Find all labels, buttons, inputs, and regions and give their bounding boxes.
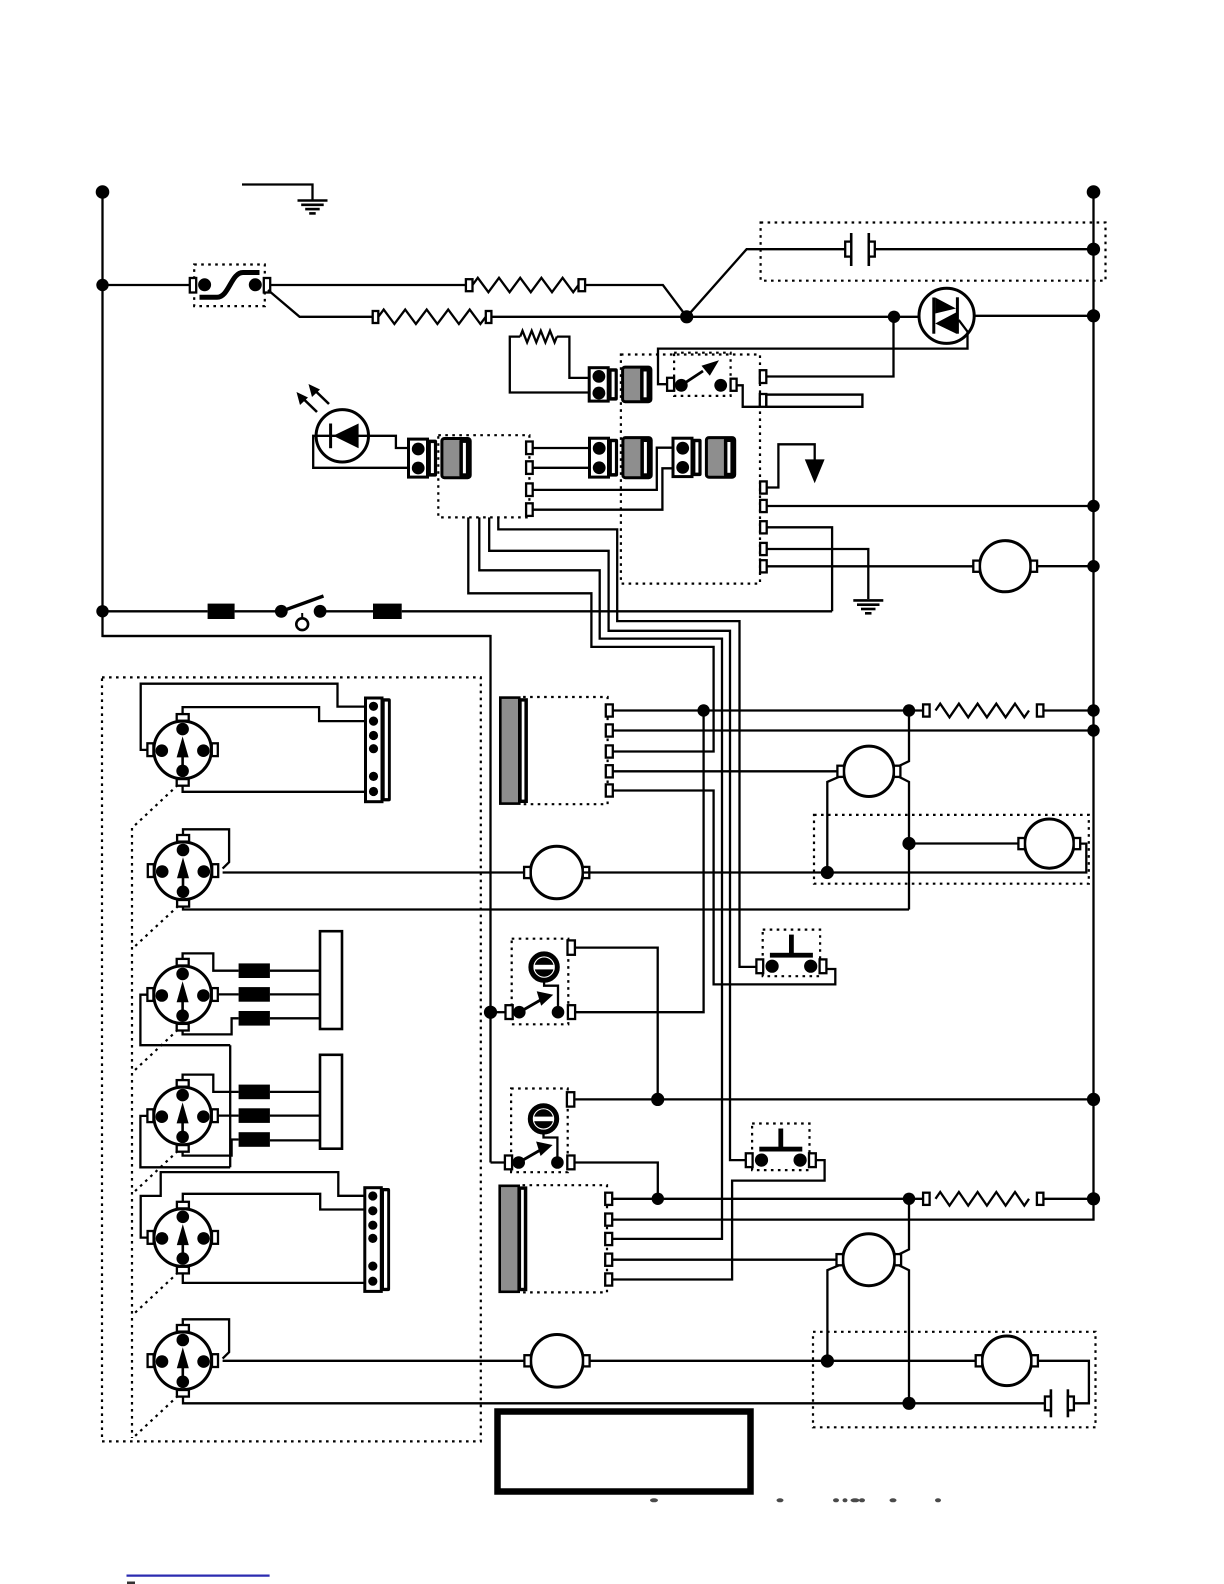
node fan box left junction [821, 866, 834, 879]
resistor R1 bake element [473, 278, 579, 292]
wire pin1 to triac gate branch [766, 317, 893, 377]
rotary infinite switch S11 [154, 1332, 212, 1390]
wire M6 left drop [827, 1265, 839, 1361]
capacitor C2 left plate [1050, 1389, 1053, 1417]
wire S11 top pigtail [183, 1319, 229, 1358]
node triac gate-branch tap [888, 311, 900, 323]
node J1-1 fan branch [903, 704, 915, 716]
wire R4 to right rail [1043, 709, 1093, 711]
linkage dotted diagonal S6 [132, 785, 178, 828]
surface element frame bar 2 [320, 1055, 342, 1149]
wire S6 top to J3-2 [183, 707, 366, 721]
node L1 light-circuit tap [96, 605, 108, 617]
element E1 [239, 963, 270, 978]
node fan box mid junction [902, 837, 915, 850]
terminal R5 right [1037, 1193, 1044, 1205]
linkage dotted vertical [131, 828, 133, 1438]
rotary infinite switch S8 [154, 966, 212, 1024]
rotary infinite switch S10 [154, 1209, 212, 1267]
capacitor C1 dotted box [761, 223, 1106, 281]
wire M4 loop [583, 844, 1086, 873]
wire S8 left junction [140, 995, 230, 1045]
wire B to right rail (L2) [767, 505, 1094, 507]
node lower box left junction [821, 1354, 834, 1367]
wire J2-4 row to motor M6 [612, 1259, 837, 1261]
resistor R3 sensor loop [520, 331, 557, 343]
terminal R4 right [1037, 704, 1044, 716]
wire S10 left to J4-1 [141, 1172, 365, 1238]
wire node A to triac TR1 [687, 316, 919, 318]
terminal breaker left [190, 278, 196, 293]
contact S3 right [314, 605, 327, 618]
footer blue rule [127, 1574, 270, 1576]
terminal clock r3 [526, 483, 533, 496]
connector pair P3 [673, 438, 692, 476]
resistor R4 [936, 704, 1030, 718]
wire S7 right to motor M2 [223, 871, 526, 873]
wire LED cathode to P1 [369, 436, 409, 448]
terminal R1 right [579, 279, 586, 291]
wire C1 to right rail [875, 248, 1094, 250]
LED emission arrows [303, 399, 317, 413]
relay S2 actuating arrow [681, 371, 703, 385]
motor M2 oven fan [530, 846, 583, 899]
wire node A to C1 [687, 249, 846, 317]
oven lamp ballast resistor right [373, 604, 402, 619]
surface element frame bar 1 [320, 931, 342, 1029]
wire R3 loop upper to P0 [557, 337, 589, 378]
wire J1-4 row to motor M1f [613, 770, 838, 772]
motor M3 convection fan upper [844, 746, 894, 796]
node L2 J1-2 tap [1087, 724, 1099, 736]
wire D to ground [767, 549, 869, 599]
terminal control board E [760, 560, 767, 572]
ribbon connector J1 [523, 697, 608, 804]
wire M3 left drop [827, 777, 839, 873]
footer page-number remnant [127, 1582, 135, 1584]
oven control board dotted box [621, 355, 760, 584]
wire J1-5 to door switch S4 loop [613, 791, 836, 985]
wire S6 left to J3-1 [141, 684, 366, 750]
wire S8 top to element E1 [183, 953, 239, 970]
element E4 [239, 1085, 270, 1100]
wire T1 top to lower oven row [575, 948, 657, 1100]
wire T2 left stub [491, 1161, 506, 1163]
node T1 left junction [484, 1006, 497, 1019]
wire left supply rail L1 [103, 192, 491, 1163]
oven sensor element loop bar [766, 395, 862, 407]
oven lamp indicator [301, 613, 303, 618]
terminal control board pin2 [760, 394, 767, 407]
terminal R2 left [373, 311, 379, 323]
capacitor C2 right plate [1067, 1389, 1070, 1417]
node L1 row1 tap [96, 279, 108, 291]
ground chassis symbol top [242, 185, 313, 201]
wire R5 to right rail [1043, 1198, 1093, 1200]
linkage dotted diagonal S11 [132, 1396, 178, 1439]
wire M3 right drop [899, 777, 909, 910]
node L2 triac row tap [1087, 309, 1100, 322]
wire light row to terminal C riser [402, 610, 832, 612]
node lower box right junction [902, 1397, 915, 1410]
wire R2 to node A [491, 316, 686, 318]
wire S8/S9 left common riser [229, 1045, 231, 1167]
wire S10 top to J4-2 [183, 1194, 365, 1210]
motor M5 lower oven fan [531, 1335, 584, 1388]
wire J2-2 row [612, 1199, 1093, 1220]
wire S7 bottom to fan branch [183, 906, 909, 909]
wire clock b2 to ribbon J2-3 [479, 517, 722, 1239]
wire to light switch [235, 610, 282, 612]
wire S9 top to element E4 [183, 1075, 239, 1092]
wire switch to right element [320, 610, 373, 612]
terminal R4 left [923, 704, 930, 716]
wire light circuit row [103, 610, 208, 612]
rotary infinite switch S9 [154, 1087, 212, 1145]
wire lower thermostat T2 top row [575, 1098, 1093, 1100]
terminal clock r4 [526, 503, 533, 516]
wire S10 bottom to J4-6 [183, 1274, 365, 1283]
terminal control board C [760, 521, 767, 533]
wire clock r1 to P2 [533, 447, 590, 449]
node J2-1 fan tap [903, 1193, 915, 1205]
wire M6 right drop [899, 1265, 909, 1403]
wire clock r3 to P3 upper [533, 448, 674, 490]
resistor R2 broil element [378, 310, 486, 324]
node A junction [680, 310, 693, 323]
wire S9 left junction [140, 1116, 230, 1167]
linkage dotted diagonal S10 [132, 1273, 178, 1316]
wire S9 right to element E5 [218, 1114, 238, 1116]
wire clock r2 to P2 [533, 467, 590, 469]
chassis arrow wire [767, 444, 815, 487]
connector pair P2 [590, 438, 609, 477]
ribbon connector J2 [523, 1185, 608, 1292]
light switch S3 lever [281, 596, 323, 611]
wire S11 bottom row [183, 1397, 1045, 1404]
triac TR1 [919, 288, 974, 343]
wire J2-1 row [612, 1198, 923, 1200]
footer faint text remnants [650, 1498, 658, 1502]
wire clock b4 to door switch S4 [498, 517, 758, 967]
node L2 bottom end [1087, 1192, 1100, 1205]
terminal S2 right [731, 379, 737, 391]
wire S6 bottom to J3-6 [183, 786, 366, 792]
element E5 [239, 1108, 270, 1123]
wire S9 bottom to element E6 [183, 1140, 239, 1156]
wire C to oven light circuit [767, 527, 832, 611]
clock timer board dotted box [438, 435, 529, 517]
wire S8 right to element E2 [218, 993, 238, 995]
surface unit section dotted box [102, 677, 481, 1441]
element E2 [239, 987, 270, 1002]
contact breaker left [198, 278, 211, 291]
chassis down-arrow [805, 459, 825, 483]
wire E4 to frame [270, 1091, 320, 1093]
terminal R5 left [923, 1193, 930, 1205]
node J2-1 thermostat tap [652, 1193, 664, 1205]
wire right supply rail L2 [1092, 192, 1094, 1199]
upper fan assembly dotted box [814, 815, 1089, 884]
linkage dotted diagonal S9 [132, 1151, 178, 1194]
node L2 lower tap [1087, 1093, 1100, 1106]
wire clock b1 to ribbon J1-3 [468, 517, 713, 751]
connector J4 [365, 1188, 382, 1292]
capacitor C1 left plate [850, 233, 853, 266]
linkage dotted diagonal S8 [132, 1030, 178, 1073]
wire S5 right loop to J2-5 [612, 1160, 824, 1279]
node L2 terminal-B tap [1087, 500, 1099, 512]
connector pair P1 (LED) [409, 439, 428, 477]
capacitor C1 right plate [867, 233, 870, 266]
wire J1-2 row to right rail [613, 729, 1094, 731]
node L2 top [1087, 185, 1101, 199]
wire S11 right to motor M5 [223, 1360, 526, 1362]
terminal control board A [760, 481, 767, 493]
wire M1 to right rail [1037, 565, 1093, 567]
wire E3 to frame [270, 1017, 320, 1019]
lower fan assembly dotted box [813, 1332, 1096, 1428]
motor M7 lower convection [982, 1336, 1032, 1386]
terminal R2 right [486, 311, 492, 323]
resistor R5 [936, 1192, 1030, 1206]
door switch S4 dotted box+symbol [763, 930, 820, 977]
element E6 [239, 1132, 270, 1147]
wire R3 loop lower to P0 [510, 337, 589, 393]
breaker bimetal S-curve [200, 273, 260, 298]
wire breaker to R2 (lower tap) [268, 290, 373, 317]
motor M4 convection [1025, 819, 1074, 868]
contact breaker right [249, 278, 262, 291]
wire S2 to pin2 and element loop [737, 385, 760, 407]
contact S3 left [275, 605, 288, 618]
node J1-1 thermostat branch [697, 704, 709, 716]
wire thermostat T1 riser [575, 711, 703, 1013]
wire S8 bottom to element E3 [183, 1018, 239, 1034]
linkage dotted diagonal S7 [132, 906, 178, 949]
wire J1-1 row [613, 709, 923, 711]
connector J3 [366, 698, 383, 802]
rotary infinite switch S7 [154, 842, 212, 900]
wire E to cooling fan motor M1 [767, 565, 974, 567]
wire breaker to R1 [270, 284, 466, 286]
wire lower feed row [103, 635, 491, 637]
connector pair P0 (sensor) [589, 368, 608, 401]
element E3 [239, 1011, 270, 1026]
oven thermostat T1 [512, 939, 569, 1025]
node L2 motor M1 tap [1087, 560, 1099, 572]
wire fan box to convection motor M4 [909, 842, 1018, 844]
wire M3 right riser [899, 711, 909, 766]
wire clock r4 to P3 lower [533, 468, 674, 509]
terminal S2 left [667, 378, 674, 391]
contact S2 left [675, 379, 688, 392]
wire triac to right rail [974, 315, 1093, 317]
wire M6 right riser [899, 1199, 909, 1255]
terminal R1 left [466, 279, 473, 291]
motor M6 lower fan [843, 1234, 895, 1286]
node L2 capacitor tap [1087, 243, 1100, 256]
wire E2 to frame [270, 993, 320, 995]
terminal control board pin1 [760, 370, 767, 383]
ground symbol control [853, 599, 883, 602]
wire E1 to frame [270, 970, 320, 972]
wire S7 top pigtail [183, 829, 229, 868]
wire LED anode to P1 [313, 436, 408, 468]
node T2 row junction [651, 1093, 664, 1106]
wire M5 to M7 row [589, 1360, 976, 1362]
terminal clock r2 [526, 461, 533, 474]
oven thermostat T2 [511, 1089, 568, 1173]
wire clock b3 to door switch S5 [489, 517, 746, 1160]
oven lamp ballast resistor left [208, 604, 235, 619]
contact S2 right [714, 379, 727, 392]
legend box [498, 1412, 751, 1492]
rotary infinite switch S6 [154, 721, 212, 779]
terminal control board D [760, 543, 767, 555]
node L1 top [96, 185, 110, 199]
wire L1 to breaker [103, 284, 190, 286]
relay switch S2 dotted box [674, 353, 731, 396]
wire R1 to node A [585, 285, 687, 317]
motor M1 cooling fan [980, 541, 1031, 592]
terminal control board B [760, 500, 767, 512]
wire E5 to frame [270, 1114, 320, 1116]
node L2 R4 tap [1087, 704, 1099, 716]
thermal breaker CB1 dotted box [194, 265, 265, 307]
wire T2 right to J2-1 row [575, 1163, 657, 1199]
door switch S5 dotted box+symbol [752, 1124, 809, 1171]
wire E6 to frame [270, 1139, 320, 1141]
LED DS1 indicator [316, 410, 368, 462]
wire M7 loop to capacitor C2 [1038, 1361, 1089, 1404]
terminal clock r1 [526, 442, 533, 455]
terminal breaker right [264, 278, 270, 293]
wire triac gate to relay switch S2 [658, 320, 968, 384]
wire T1 left stub [491, 1011, 507, 1013]
